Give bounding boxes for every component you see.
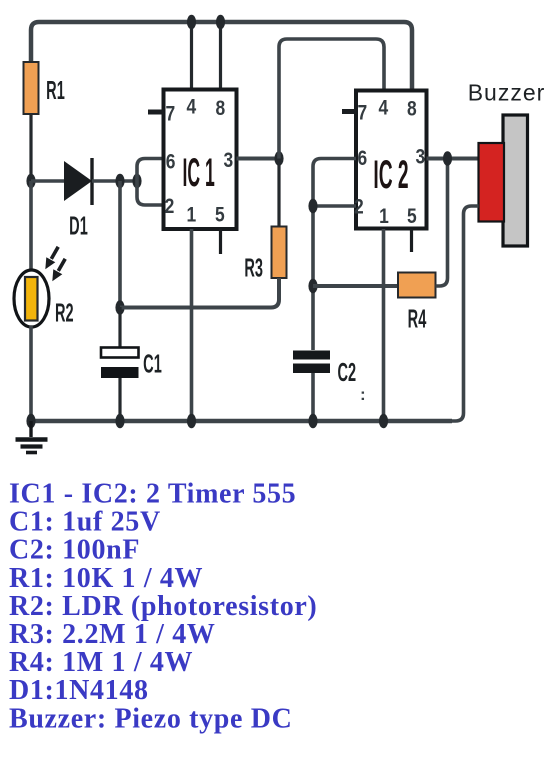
svg-text:3: 3 — [415, 146, 425, 169]
IC2 pin 7 stub — [342, 109, 357, 114]
svg-text:R1: 10K 1 / 4W: R1: 10K 1 / 4W — [9, 563, 203, 594]
svg-text:2: 2 — [165, 195, 175, 218]
capacitor C2 top plate — [293, 351, 330, 360]
svg-text:C1: 1uf 25V: C1: 1uf 25V — [9, 507, 161, 538]
wire node A to D1 anode — [31, 179, 66, 183]
node D junction pin2 — [308, 199, 317, 213]
svg-text:4: 4 — [378, 97, 388, 120]
svg-text:D1:1N4148: D1:1N4148 — [9, 675, 149, 706]
junction dot top rail at IC1 pin 8 — [216, 15, 225, 29]
wire node B down to C1 — [118, 181, 122, 307]
svg-text:7: 7 — [165, 103, 175, 126]
resistor R3 — [272, 227, 287, 279]
wire C1 top lead — [118, 307, 121, 348]
capacitor C1 minus plate — [101, 367, 139, 378]
svg-text:5: 5 — [407, 206, 417, 229]
light arrows onto R2 — [45, 247, 65, 281]
node B junction D1/C1 branch — [115, 174, 124, 188]
wire IC2 pin 3 to buzzer — [427, 157, 480, 161]
svg-text:C2: 100nF: C2: 100nF — [9, 535, 140, 566]
svg-text:R4: R4 — [408, 305, 427, 333]
node A junction R1/D1/LDR — [26, 174, 35, 188]
wire R4 right up to node F — [436, 159, 448, 287]
node F junction pin3/R4/buzzer — [443, 151, 452, 165]
resistor R4 — [398, 273, 436, 298]
wire loop node B to IC1 pin 6 and pin 2 — [137, 159, 164, 206]
node C junction pin3/R3/IC2 pin4 — [274, 151, 283, 165]
IC2 pin 5 stub — [410, 229, 413, 252]
svg-text:Buzzer: Piezo type DC: Buzzer: Piezo type DC — [9, 703, 292, 734]
wire C1 bottom lead to ground — [118, 378, 121, 421]
svg-text:6: 6 — [166, 151, 176, 174]
node E junction R4 branch — [308, 279, 317, 293]
wire IC1 pin 1 to ground rail — [190, 229, 194, 421]
svg-text:R3: R3 — [244, 254, 263, 282]
wire ground rail — [31, 419, 452, 424]
wire buzzer bottom terminal to ground rail — [448, 206, 479, 421]
capacitor C2 bottom plate — [293, 364, 330, 374]
IC2 box — [356, 91, 427, 229]
svg-text:7: 7 — [357, 102, 367, 125]
wire node A down to LDR R2 — [29, 181, 33, 271]
svg-text:Buzzer: Buzzer — [468, 80, 546, 106]
wire top power rail from left column to IC2 pin 8 — [31, 22, 412, 91]
photoresistor R2 (LDR) — [14, 270, 49, 327]
svg-text:C2: C2 — [337, 359, 356, 387]
wire node C up over to IC2 pin 4 — [279, 39, 384, 159]
wire IC1 pin 8 to top rail — [219, 23, 222, 90]
ground rail junction dot at IC1 pin1 — [187, 414, 196, 428]
svg-text:1: 1 — [186, 204, 196, 227]
diode D1 — [64, 158, 92, 205]
svg-text:IC1 - IC2: 2 Timer 555: IC1 - IC2: 2 Timer 555 — [9, 479, 296, 510]
svg-text:R4: 1M 1 / 4W: R4: 1M 1 / 4W — [9, 647, 193, 678]
wire IC1 pin 3 to node C — [237, 157, 280, 161]
ground rail junction dot at C1 — [115, 414, 124, 428]
IC1 pin 5 stub — [219, 229, 222, 254]
wire R1 bottom lead to node A — [29, 114, 32, 181]
junction dot at loop to IC1 pins — [132, 174, 141, 188]
svg-text:R3: 2.2M 1 / 4W: R3: 2.2M 1 / 4W — [9, 619, 216, 650]
wire node C down to R3 top — [277, 159, 280, 228]
wire IC2 pin 6 loop to node D — [313, 159, 356, 351]
junction dot top rail at IC1 pin 4 — [187, 15, 196, 29]
wire C2 bottom to ground — [311, 373, 315, 421]
ground rail junction dot at LDR — [26, 414, 35, 428]
ground rail junction dot at C2 — [308, 414, 317, 428]
wire node E to R4 left — [313, 284, 398, 288]
svg-text:IC 1: IC 1 — [182, 150, 214, 195]
wire IC2 pin 1 to ground rail — [382, 229, 386, 421]
buzzer body (red) — [479, 143, 505, 222]
resistor R1 — [24, 62, 39, 114]
svg-text:R1: R1 — [46, 77, 65, 105]
wire IC1 pin 4 to top rail — [190, 23, 193, 90]
svg-text:6: 6 — [358, 148, 368, 171]
svg-text:R2: R2 — [55, 299, 74, 327]
svg-text:C1: C1 — [143, 350, 162, 378]
capacitor C1 plus plate — [101, 348, 139, 358]
svg-text:1: 1 — [379, 206, 389, 229]
svg-text:8: 8 — [215, 98, 225, 121]
svg-text:IC 2: IC 2 — [373, 152, 408, 197]
svg-text:3: 3 — [223, 150, 233, 173]
ground rail junction dot at IC2 pin1 — [379, 414, 388, 428]
ground symbol — [16, 421, 48, 453]
svg-text::: : — [360, 385, 366, 404]
wire R3 bottom to node B lower — [120, 278, 279, 308]
svg-text:5: 5 — [215, 204, 225, 227]
svg-text:D1: D1 — [69, 212, 88, 240]
junction dot node B lower / R3 wire — [115, 300, 124, 314]
IC1 pin 7 stub — [148, 110, 164, 115]
wire D1 cathode to node B — [92, 179, 137, 183]
wire LDR bottom to ground rail — [29, 326, 33, 421]
IC1 box — [164, 90, 237, 230]
svg-text:4: 4 — [186, 96, 196, 119]
svg-text:R2: LDR (photoresistor): R2: LDR (photoresistor) — [9, 591, 317, 622]
svg-text:8: 8 — [407, 98, 417, 121]
buzzer plate (gray) — [503, 115, 528, 246]
wire IC2 pin 2 stub to node D — [313, 204, 356, 208]
